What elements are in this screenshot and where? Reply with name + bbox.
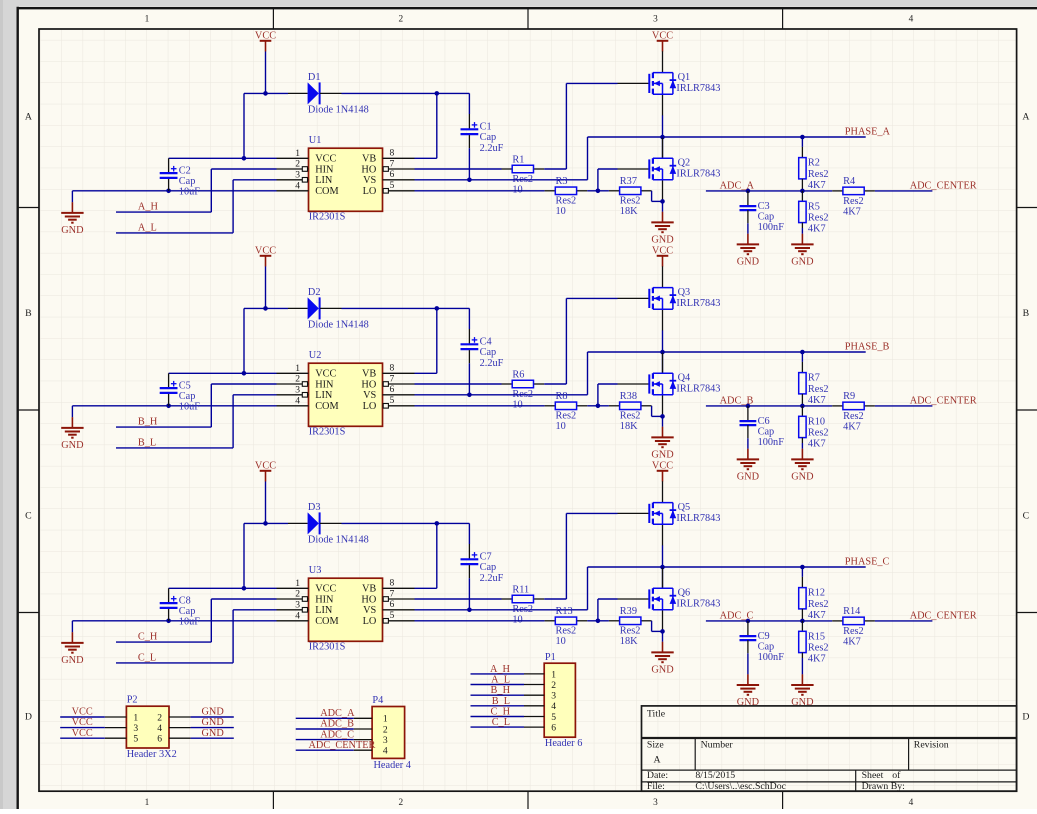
svg-text:3: 3 [295,384,300,395]
svg-text:Res2: Res2 [808,384,829,395]
svg-text:100nF: 100nF [758,437,785,448]
svg-text:Q2: Q2 [678,157,691,168]
svg-text:Res2: Res2 [620,411,641,422]
wire cap to VS row [468,578,470,610]
resistor R5 [799,201,829,234]
wire HO row [415,168,502,170]
wire between FETs [662,330,664,372]
pin diode cathode [320,307,342,309]
svg-text:3: 3 [653,15,658,25]
node pin1 junction [242,586,247,591]
svg-text:C:\Users\..\esc.SchDoc: C:\Users\..\esc.SchDoc [695,781,786,792]
svg-text:6: 6 [551,723,556,734]
wire C_H stub [471,716,525,718]
wire diode row left + down to pin1 [244,92,288,94]
pin 4 [524,701,556,712]
svg-text:R15: R15 [808,631,825,642]
svg-text:Cap: Cap [179,606,196,617]
wire phase to R top [801,137,803,147]
pin 3 [354,735,388,746]
svg-text:B: B [25,308,32,319]
svg-text:2: 2 [157,712,162,723]
svg-text:A: A [1022,112,1029,123]
svg-text:3: 3 [383,735,388,746]
node cap/VS junction [467,393,472,398]
svg-text:1: 1 [145,798,150,808]
ground GND [61,202,84,236]
svg-text:Cap: Cap [179,391,196,402]
svg-text:LIN: LIN [315,175,333,186]
svg-text:ADC_CENTER: ADC_CENTER [910,611,977,622]
wire VCC stub [60,716,105,718]
svg-text:Res2: Res2 [808,428,829,439]
svg-text:2.2uF: 2.2uF [480,143,504,154]
pin diode anode [288,92,308,94]
zone tick [18,207,39,209]
svg-text:IRLR7843: IRLR7843 [676,298,720,309]
wire A_H stub [471,673,525,675]
wire phase row [588,351,866,353]
svg-text:C: C [1023,511,1030,522]
svg-text:10uF: 10uF [179,617,200,628]
svg-text:ADC_B: ADC_B [320,719,354,730]
svg-text:VB: VB [362,584,376,595]
svg-text:B_H: B_H [491,685,511,696]
svg-text:GND: GND [651,664,674,675]
svg-text:VB: VB [362,369,376,380]
wire H input [116,211,211,213]
svg-text:R2: R2 [808,158,820,169]
svg-text:3: 3 [133,723,138,734]
wire VCC stub [60,737,105,739]
pin 2 [524,680,556,691]
svg-text:Cap: Cap [758,427,775,438]
svg-text:2: 2 [398,15,403,25]
svg-text:Date:: Date: [647,770,668,781]
pin 3 [105,723,139,734]
svg-text:IR2301S: IR2301S [309,427,346,438]
wire cap to ground [747,223,749,234]
svg-text:1: 1 [133,712,138,723]
svg-text:VCC: VCC [72,717,93,728]
svg-text:ADC_CENTER: ADC_CENTER [910,396,977,407]
svg-text:COM: COM [315,401,338,412]
wire between FETs [662,545,664,587]
svg-text:C1: C1 [480,122,492,133]
svg-text:3: 3 [295,169,300,180]
pin cap top lead [168,588,170,603]
svg-text:of: of [892,770,901,781]
connector P1 Header 6 [544,652,582,749]
op-amp U1 IR2301S gate driver [277,135,415,223]
pin 8 VB [362,148,415,165]
svg-text:ADC_CENTER: ADC_CENTER [910,181,977,192]
resistor R13 [545,606,588,647]
svg-text:P2: P2 [127,695,138,706]
pin 2 HIN [277,589,335,606]
wire R to ground [801,443,803,449]
pin 7 HO [361,158,414,175]
pin cap bottom [468,565,470,578]
svg-text:B_L: B_L [492,696,510,707]
ground GND [61,417,84,451]
wire cap to VS row [468,363,470,395]
wire diode to bootstrap cap corner [342,307,470,309]
svg-text:5: 5 [551,712,556,723]
svg-text:VCC: VCC [72,707,93,718]
svg-text:6: 6 [157,734,162,745]
svg-text:ADC_A: ADC_A [320,708,355,719]
pin cap top [468,544,470,559]
node source junction [660,414,665,419]
wire VCC stem to diode row [265,267,267,309]
svg-text:Res2: Res2 [556,196,577,207]
wire into bootstrap cap [468,523,470,544]
svg-text:Header 4: Header 4 [374,760,411,771]
wire VB riser [436,93,438,158]
svg-text:4: 4 [383,746,388,757]
svg-text:C3: C3 [758,201,770,212]
wire VCC stem to diode row [265,52,267,94]
pin 6 [524,723,556,734]
pin filter cap top [747,406,749,421]
svg-text:LIN: LIN [315,605,333,616]
svg-text:HIN: HIN [315,379,334,390]
svg-text:A_H: A_H [138,202,159,213]
wire phase row [588,566,866,568]
node phase junction [660,565,665,570]
wire R to ground [801,658,803,674]
node source junction [660,199,665,204]
svg-text:IRLR7843: IRLR7843 [676,513,720,524]
node COM/cap junction [166,619,171,624]
wire pin3 row [233,394,276,396]
pin filter cap top [747,191,749,206]
svg-text:4K7: 4K7 [808,610,826,621]
svg-text:C: C [25,511,32,522]
svg-text:B_L: B_L [138,438,156,449]
wire low gate riser [597,169,599,191]
svg-text:18K: 18K [620,636,638,647]
pin R bottom-divider bottom [801,653,803,658]
pin 3 [524,691,556,702]
pin cap top lead [168,158,170,173]
svg-text:IRLR7843: IRLR7843 [676,83,720,94]
svg-text:Res2: Res2 [843,196,864,207]
wire C_L stub [471,726,525,728]
svg-text:B: B [1023,308,1030,319]
zone tick [527,8,529,29]
power port VCC [652,245,673,266]
resistor R37 [609,176,652,217]
wire low gate riser [597,599,599,621]
node pin1 junction [242,156,247,161]
wire low gate riser [597,384,599,406]
ground GND [651,427,674,461]
wire R37 to source [651,621,653,632]
wire cap to ground [747,438,749,449]
svg-text:Number: Number [701,739,734,750]
svg-text:VCC: VCC [315,154,336,165]
wire LO row [415,620,545,622]
wire R to gate junction [587,190,609,192]
svg-text:HO: HO [361,164,376,175]
svg-text:7: 7 [390,373,395,384]
svg-text:10: 10 [512,399,522,410]
svg-text:R39: R39 [620,606,637,617]
pin 6 [157,734,190,745]
svg-text:C6: C6 [758,416,770,427]
svg-text:D: D [1022,712,1029,723]
svg-text:Cap: Cap [480,347,497,358]
connector P4 Header 4 [372,695,411,771]
resistor R12 [799,588,829,621]
svg-text:10: 10 [556,421,566,432]
svg-text:4: 4 [551,701,556,712]
svg-text:A: A [25,112,32,123]
pin 5 [524,712,556,723]
pin R bottom-divider top [801,406,803,416]
svg-text:GND: GND [202,707,225,718]
wire phase to R top [801,352,803,362]
transistor Q5 [618,481,721,545]
pin R top [801,577,803,588]
resistor R38 [609,391,652,432]
wire VS row [415,394,588,396]
diode D2 [308,287,369,330]
svg-text:18K: 18K [620,421,638,432]
svg-text:3: 3 [295,599,300,610]
wire B_H stub [471,694,525,696]
svg-text:4: 4 [295,395,300,406]
pin 1 VCC [277,578,337,595]
svg-text:GND: GND [651,234,674,245]
wire VB row [415,587,437,589]
ground GND [737,234,760,268]
svg-text:VB: VB [362,154,376,165]
wire to ground [71,406,73,418]
svg-text:U2: U2 [309,350,322,361]
wire VS riser to phase node [587,137,589,180]
wire VB row [415,157,437,159]
resistor R10 [799,416,829,449]
capacitor C4 [461,337,504,369]
svg-text:2.2uF: 2.2uF [480,573,504,584]
pin cap top [468,114,470,129]
wire ADC_B stub [296,728,354,730]
svg-text:R1: R1 [512,154,524,165]
svg-text:R10: R10 [808,416,825,427]
node phase junction [660,135,665,140]
resistor R1 [502,154,545,195]
ground GND [737,449,760,483]
pin diode anode [288,522,308,524]
ground GND [791,234,814,268]
svg-text:2: 2 [383,724,388,735]
node phase junction [660,350,665,355]
svg-text:A_H: A_H [490,664,511,675]
svg-text:100nF: 100nF [758,222,785,233]
svg-text:10: 10 [512,614,522,625]
svg-text:GND: GND [61,225,84,236]
capacitor C7 [461,552,504,584]
node VCC/diode junction [263,306,268,311]
svg-text:LO: LO [363,186,377,197]
svg-text:Diode 1N4148: Diode 1N4148 [308,534,369,545]
svg-text:8: 8 [390,363,395,374]
svg-text:Header 3X2: Header 3X2 [127,749,177,760]
svg-text:R5: R5 [808,201,820,212]
pin cap bottom [468,350,470,363]
node source junction [660,629,665,634]
pin 4 [354,746,388,757]
svg-text:C8: C8 [179,595,191,606]
svg-text:6: 6 [390,384,395,395]
svg-text:C9: C9 [758,631,770,642]
wire phase row [588,136,866,138]
svg-text:C4: C4 [480,337,492,348]
svg-text:PHASE_C: PHASE_C [845,557,890,568]
svg-text:VCC: VCC [315,584,336,595]
svg-text:R7: R7 [808,373,820,384]
pin diode cathode [320,92,342,94]
pin 5 LO [363,395,415,412]
svg-text:U1: U1 [309,135,322,146]
resistor R15 [799,631,829,664]
svg-text:Res2: Res2 [808,599,829,610]
svg-text:VCC: VCC [255,30,276,41]
wire GND stub [191,737,234,739]
svg-text:3: 3 [551,691,556,702]
pin R bottom-divider bottom [801,223,803,228]
svg-text:VCC: VCC [652,30,673,41]
svg-text:1: 1 [145,15,150,25]
wire H input [116,641,211,643]
pin R top [801,147,803,158]
connector P2 Header 3X2 [126,695,176,760]
zone tick [272,8,274,29]
svg-text:R11: R11 [512,584,529,595]
pin 4 COM [277,395,339,412]
svg-text:4K7: 4K7 [843,206,861,217]
ground GND [737,674,760,708]
resistor R9 [832,391,875,432]
pin 6 VS [363,169,414,186]
node low gate junction [596,404,601,409]
svg-text:VCC: VCC [652,460,673,471]
wire VS row [415,179,588,181]
svg-text:4: 4 [295,610,300,621]
wire VS row [415,609,588,611]
svg-text:Diode 1N4148: Diode 1N4148 [308,319,369,330]
svg-text:5: 5 [390,180,395,191]
svg-text:1: 1 [295,148,300,159]
svg-text:8/15/2015: 8/15/2015 [695,770,735,781]
svg-text:4: 4 [909,15,914,25]
svg-text:GND: GND [202,728,225,739]
svg-text:4K7: 4K7 [808,395,826,406]
diode D1 [308,72,369,115]
pin R top [801,362,803,373]
wire into bootstrap cap [468,93,470,114]
pin filter cap bottom [747,425,749,438]
wire diode to bootstrap cap corner [342,522,470,524]
wire COM row [72,405,276,407]
resistor R4 [832,176,875,217]
svg-text:IR2301S: IR2301S [309,212,346,223]
wire R to gate riser [544,383,566,385]
svg-text:IRLR7843: IRLR7843 [676,383,720,394]
svg-text:1: 1 [295,578,300,589]
svg-text:4K7: 4K7 [808,654,826,665]
node diode/VB junction [435,306,440,311]
wire pin2 row [211,598,276,600]
pin cap bottom lead [168,179,170,191]
wire H input [116,426,211,428]
svg-text:ADC_CENTER: ADC_CENTER [309,740,376,751]
svg-text:IRLR7843: IRLR7843 [676,168,720,179]
svg-text:LIN: LIN [315,390,333,401]
wire pin2 row [211,168,276,170]
svg-text:HIN: HIN [315,164,334,175]
transistor Q3 [618,266,721,330]
capacitor C2 [160,165,201,197]
wire R to gate junction [587,405,609,407]
svg-text:C_L: C_L [138,653,156,664]
svg-text:Res2: Res2 [808,643,829,654]
wire pin2 row [211,383,276,385]
svg-text:ADC_C: ADC_C [720,611,754,622]
svg-text:Res2: Res2 [556,411,577,422]
svg-text:LO: LO [363,401,377,412]
wire ADC center [875,190,933,192]
wire R to gate riser [544,168,566,170]
transistor Q1 [618,51,721,115]
wire VS riser to phase node [587,352,589,395]
svg-text:Res2: Res2 [843,411,864,422]
pin diode anode [288,307,308,309]
svg-text:3: 3 [653,798,658,808]
svg-text:HO: HO [361,379,376,390]
node diode/VB junction [435,91,440,96]
pin cap bottom [468,135,470,148]
svg-text:VS: VS [363,390,376,401]
svg-text:VCC: VCC [72,728,93,739]
pin 1 VCC [277,363,337,380]
svg-text:4: 4 [295,180,300,191]
wire ADC_A stub [296,717,354,719]
wire HO row [415,383,502,385]
wire VCC stub [60,727,105,729]
wire L input [116,447,233,449]
svg-text:Q4: Q4 [678,372,691,383]
power port VCC [255,245,276,266]
svg-text:R14: R14 [843,606,860,617]
svg-text:R38: R38 [620,391,637,402]
resistor R39 [609,606,652,647]
wire ADC center [875,405,933,407]
svg-text:4K7: 4K7 [808,224,826,235]
wire diode row left + down to pin1 [244,522,288,524]
pin 5 LO [363,610,415,627]
svg-text:6: 6 [390,599,395,610]
node VCC/diode junction [263,91,268,96]
svg-text:D: D [25,712,32,723]
power port VCC [652,460,673,481]
wire into bootstrap cap [468,308,470,329]
svg-text:Sheet: Sheet [862,770,884,781]
power port VCC [255,460,276,481]
